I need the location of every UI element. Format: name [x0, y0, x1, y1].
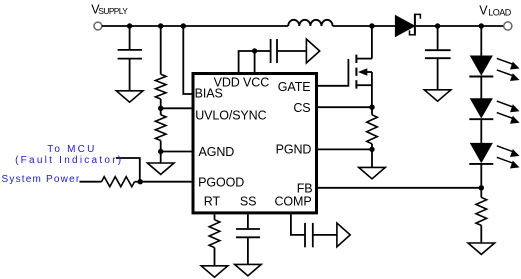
- LED D3 light arrows: [497, 101, 520, 124]
- resistor R1 uvlo upper: [155, 26, 166, 108]
- svg-text:FB: FB: [297, 182, 313, 196]
- LED D4 light arrows: [497, 146, 520, 169]
- ground power: [359, 167, 386, 178]
- resistor R2 uvlo lower: [155, 108, 166, 163]
- svg-text:COMP: COMP: [275, 195, 312, 209]
- ground vcc bypass sideways: [306, 39, 319, 63]
- node supply-cap junction: [127, 23, 132, 28]
- wire pgood pin: [140, 181, 193, 183]
- terminal VLOAD output: [504, 22, 512, 30]
- svg-text:PGND: PGND: [276, 142, 312, 156]
- node uvlo divider tap: [158, 106, 163, 111]
- LED D4: [469, 143, 493, 164]
- wire inductor to diode: [333, 25, 396, 27]
- ground rt: [201, 266, 228, 277]
- wire cs pin: [318, 106, 372, 108]
- wire led1-led2: [480, 77, 482, 99]
- wire top supply rail: [102, 25, 288, 27]
- wire bias feed: [183, 26, 193, 94]
- wire agnd node to AGND pin: [161, 151, 193, 153]
- capacitor C4 soft start: [236, 214, 260, 264]
- wire pgnd pin: [318, 148, 372, 150]
- node switch-diode junction: [369, 23, 374, 28]
- op-amp U1 LED driver controller IC body: [193, 74, 317, 213]
- schottky diode D1: [395, 14, 420, 37]
- LED D2 light arrows: [497, 58, 520, 81]
- node agnd junction: [158, 149, 163, 154]
- svg-text:PGOOD: PGOOD: [198, 176, 244, 190]
- svg-text:LOAD: LOAD: [488, 8, 512, 18]
- capacitor C3 output: [425, 26, 451, 90]
- ground comp sideways: [337, 223, 350, 247]
- wire fb pin: [318, 187, 481, 189]
- ground analog: [147, 163, 174, 174]
- node vcc bypass junction: [252, 48, 257, 53]
- node pgnd junction: [369, 147, 374, 152]
- resistor R3 sense: [367, 107, 378, 167]
- wire vload to led string: [480, 26, 482, 56]
- ground ss: [235, 264, 262, 275]
- wire uvlo tap to UVLO/SYNC pin: [161, 107, 193, 109]
- resistor R4 led current sense: [476, 188, 487, 243]
- svg-text:BIAS: BIAS: [195, 86, 223, 100]
- node pgood junction: [138, 179, 143, 184]
- capacitor C5 comp: [291, 214, 337, 247]
- capacitor C1 input: [118, 26, 142, 91]
- svg-text:CS: CS: [293, 101, 310, 115]
- svg-text:AGND: AGND: [199, 145, 235, 159]
- svg-text:RT: RT: [204, 195, 221, 209]
- node supply-divider junction: [158, 23, 163, 28]
- wire fault indicator: [116, 158, 140, 182]
- transistor Q1 nmos switch: [348, 26, 372, 107]
- svg-text:UVLO/SYNC: UVLO/SYNC: [195, 108, 266, 122]
- wire led3 to fb node: [480, 164, 482, 188]
- node fb: [479, 185, 484, 190]
- svg-text:GATE: GATE: [278, 80, 311, 94]
- ground output cap: [424, 90, 451, 101]
- svg-text:V: V: [479, 3, 488, 17]
- svg-text:System Power: System Power: [2, 174, 81, 185]
- ground input cap: [116, 91, 143, 102]
- svg-text:(Fault Indicator): (Fault Indicator): [15, 155, 123, 166]
- inductor L1: [288, 20, 332, 26]
- svg-text:To MCU: To MCU: [47, 144, 96, 155]
- ground led sense: [468, 243, 495, 254]
- wire diode to VLOAD: [416, 25, 504, 27]
- LED D3: [469, 99, 493, 120]
- svg-text:SS: SS: [240, 195, 256, 209]
- resistor R6 pgood series: [80, 177, 141, 187]
- resistor R5 rt timing: [209, 214, 220, 265]
- capacitor C2 vcc bypass: [255, 39, 307, 63]
- svg-text:SUPPLY: SUPPLY: [98, 6, 128, 16]
- wire vdd-vcc tie: [239, 51, 255, 72]
- node supply-bias junction: [181, 23, 186, 28]
- terminal VSUPPLY input: [94, 22, 102, 30]
- node output-cap junction: [435, 23, 440, 28]
- node led-string junction: [479, 23, 484, 28]
- wire led2-led3: [480, 119, 482, 143]
- node current sense: [369, 105, 374, 110]
- wire gate drive: [318, 85, 348, 87]
- LED D2: [469, 56, 493, 77]
